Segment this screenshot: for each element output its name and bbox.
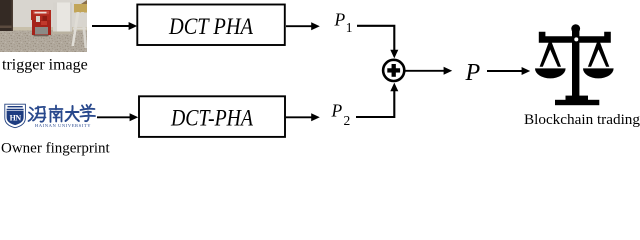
adder: circled plus bbox=[383, 60, 404, 81]
svg-text:HN: HN bbox=[10, 114, 22, 123]
scale right hanger chevron bbox=[588, 42, 609, 67]
wire: arrow from DCT PHA box to P1 bbox=[286, 22, 320, 30]
wire: P1 to adder (right then down) bbox=[357, 26, 398, 59]
svg-text:DCT-PHA: DCT-PHA bbox=[170, 106, 254, 131]
wire: arrow from owner fingerprint to DCT-PHA box bbox=[97, 113, 138, 121]
svg-text:trigger image: trigger image bbox=[2, 57, 88, 74]
logo shield emblem bbox=[5, 104, 26, 128]
scale left hanger chevron bbox=[540, 42, 561, 67]
trigger image photograph bbox=[0, 0, 87, 52]
scale left pan bbox=[535, 68, 566, 78]
wire: arrow from P to blockchain trading bbox=[487, 67, 530, 75]
svg-text:Blockchain trading: Blockchain trading bbox=[524, 111, 640, 128]
svg-text:P: P bbox=[465, 60, 481, 86]
wire: arrow from adder to P bbox=[405, 67, 452, 75]
red machine bbox=[34, 35, 49, 37]
baseboard bbox=[13, 27, 87, 31]
scale beam pivot dot bbox=[574, 37, 578, 41]
white column bbox=[53, 3, 72, 34]
svg-text:HAINAN UNIVERSITY: HAINAN UNIVERSITY bbox=[35, 123, 91, 128]
logo chinese characters: da bbox=[66, 106, 79, 121]
photo wall background bbox=[0, 0, 87, 52]
scale top knob bbox=[571, 24, 580, 33]
icon: balance scale (blockchain trading) bbox=[535, 24, 614, 105]
wire: arrow from trigger image to DCT PHA box bbox=[92, 22, 137, 30]
wire: P2 to adder (right then up) bbox=[356, 83, 398, 117]
chair bbox=[75, 0, 87, 12]
scale right pan bbox=[583, 68, 614, 78]
logo: Hainan University (owner fingerprint) bbox=[5, 104, 95, 128]
dark door bbox=[0, 0, 13, 31]
svg-text:1: 1 bbox=[346, 20, 353, 35]
scale base lower tier bbox=[555, 100, 599, 105]
block: DCT PHA (top) bbox=[137, 5, 284, 46]
svg-text:Owner fingerprint: Owner fingerprint bbox=[1, 141, 111, 157]
svg-text:P: P bbox=[334, 9, 346, 29]
svg-text:P: P bbox=[331, 101, 343, 121]
logo chinese characters: nan bbox=[50, 106, 63, 123]
scale base upper tier bbox=[566, 96, 589, 100]
scale post bbox=[572, 30, 579, 96]
logo chinese characters: xue bbox=[81, 105, 96, 122]
svg-text:2: 2 bbox=[344, 113, 351, 128]
block: DCT-PHA (bottom) bbox=[139, 96, 285, 137]
svg-text:DCT PHA: DCT PHA bbox=[168, 14, 254, 39]
logo chinese characters: hai bbox=[29, 107, 46, 122]
node P1 bbox=[334, 9, 353, 35]
scale beam with upturned ends bbox=[539, 32, 611, 43]
photo floor bbox=[0, 30, 87, 52]
wire: arrow from DCT-PHA box to P2 bbox=[286, 113, 320, 121]
node P2 bbox=[331, 101, 351, 129]
